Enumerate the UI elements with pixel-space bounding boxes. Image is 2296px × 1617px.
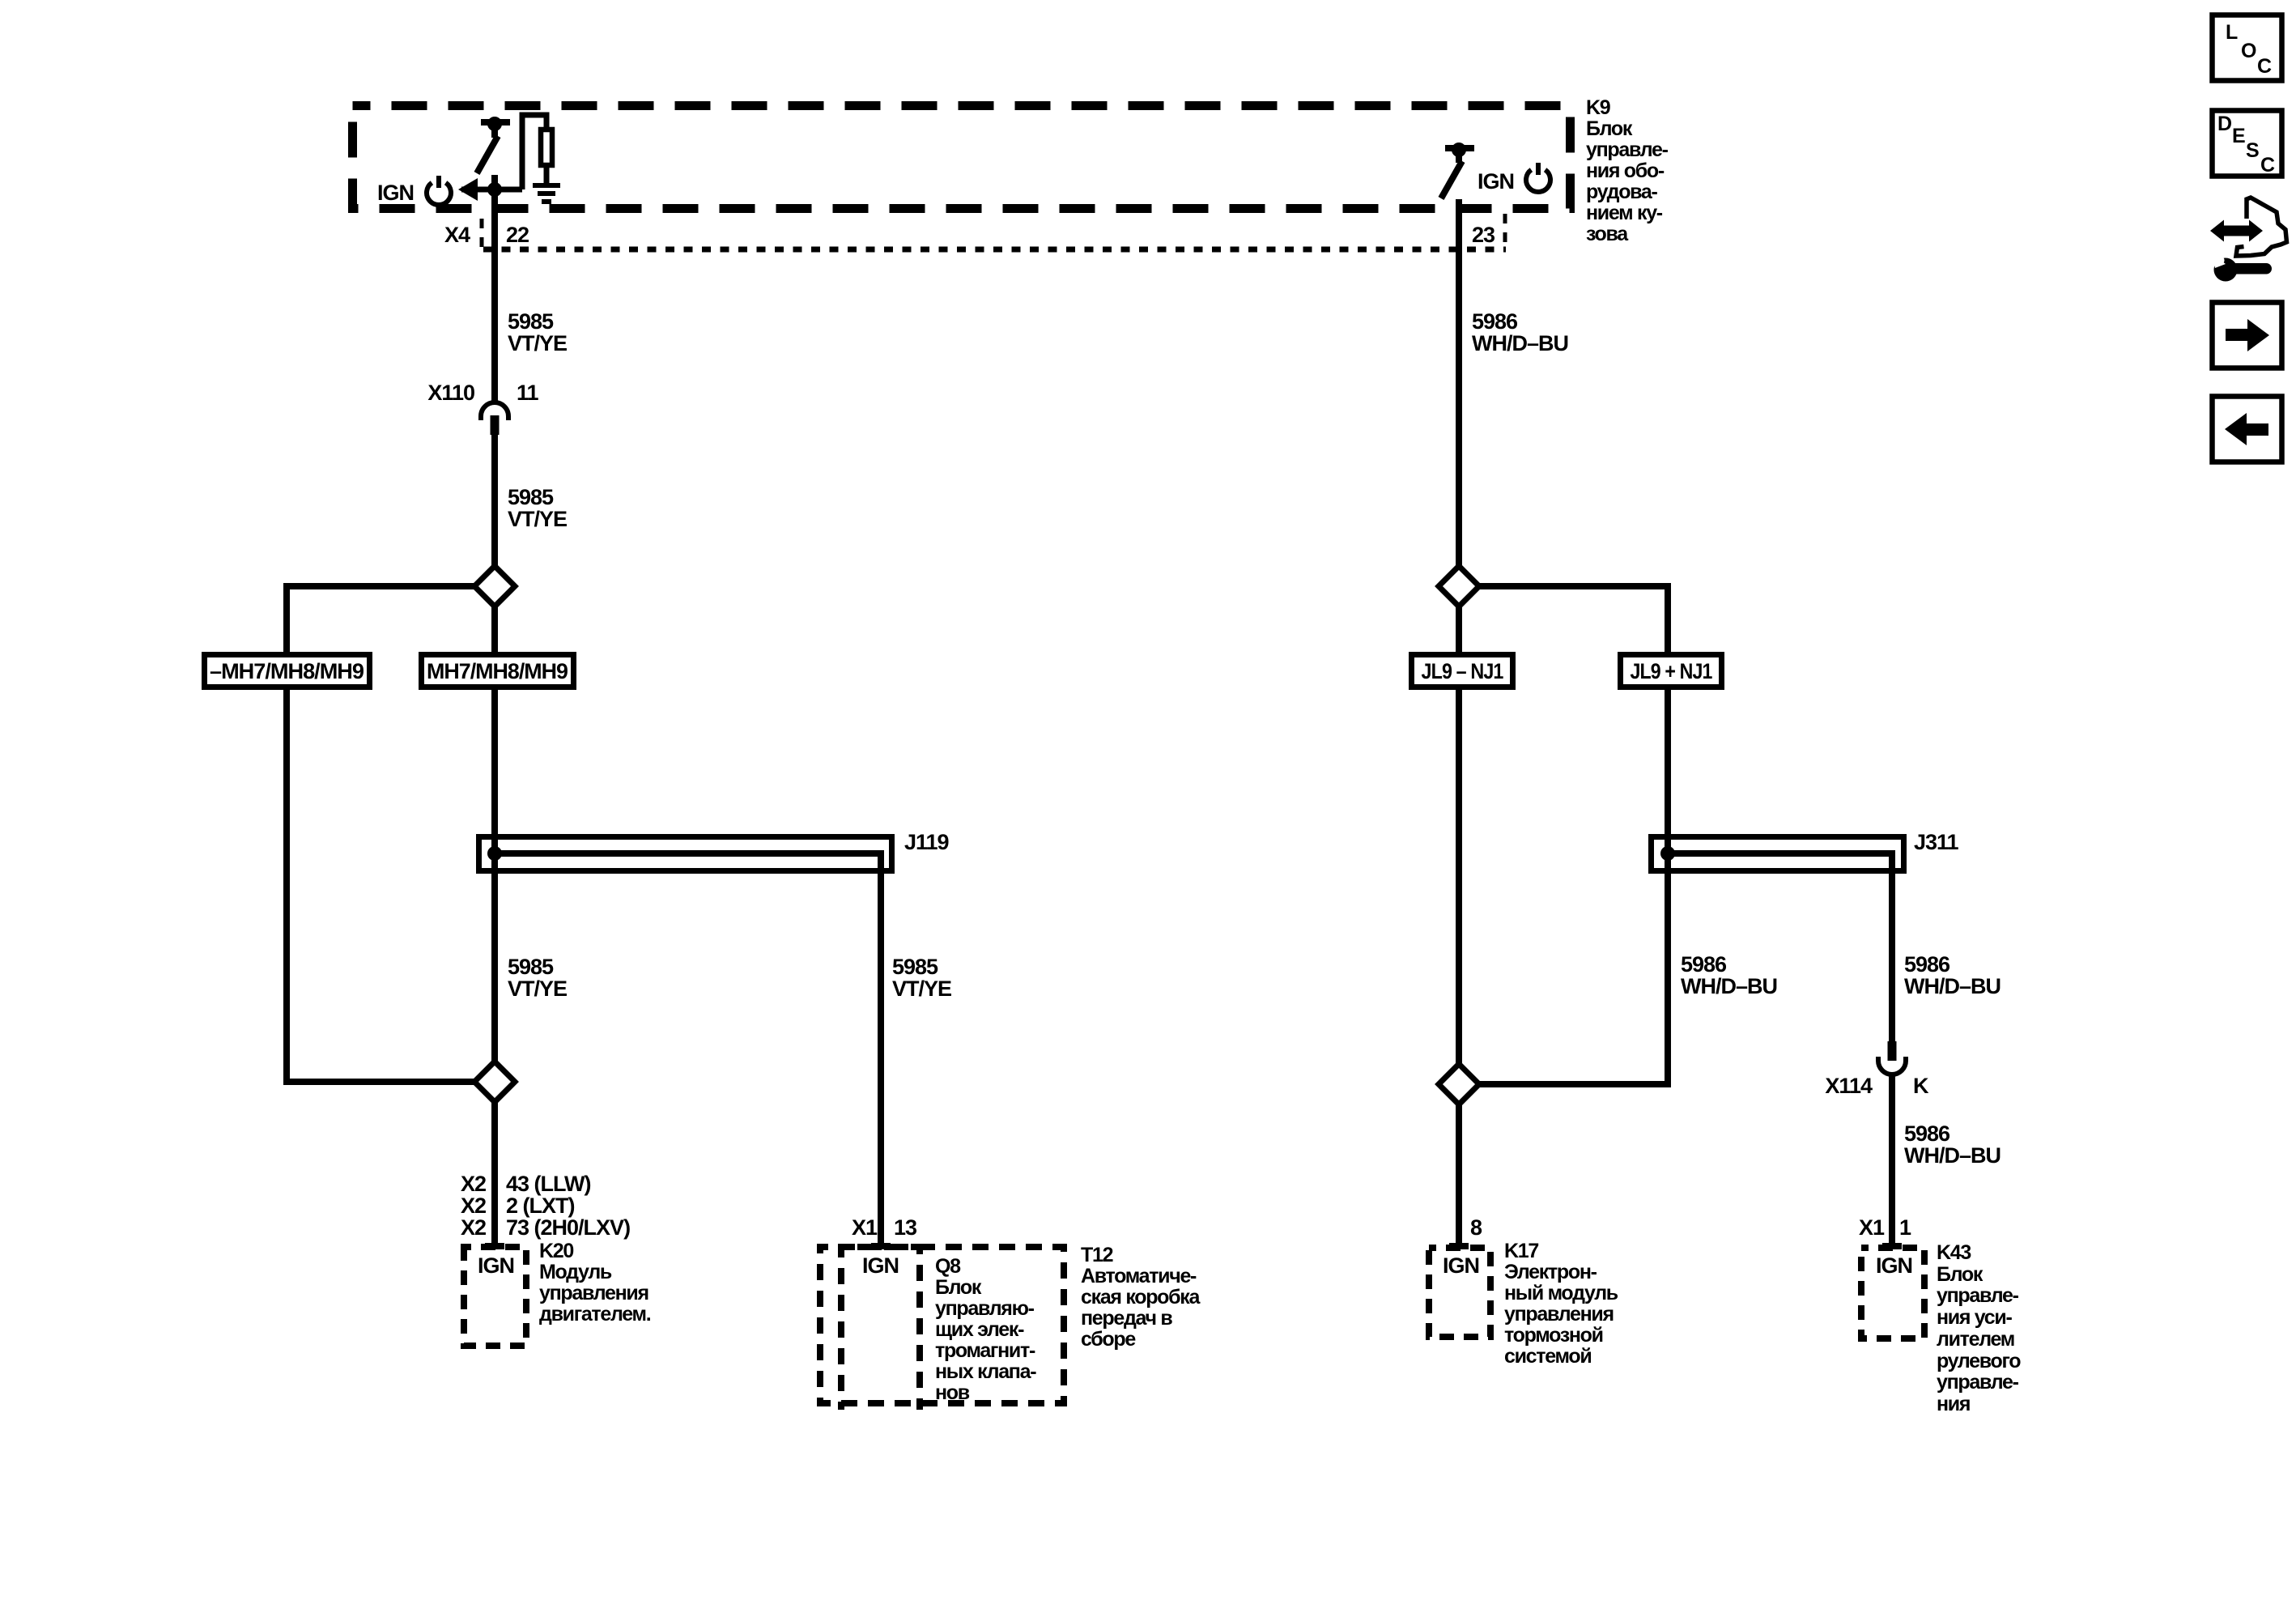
svg-text:C: C [2260, 154, 2275, 177]
sidebar left-arrow box [2213, 397, 2282, 462]
svg-text:X110: X110 [427, 381, 474, 405]
svg-text:ская коробка: ская коробка [1081, 1286, 1201, 1308]
svg-text:Автоматиче-: Автоматиче- [1081, 1265, 1197, 1287]
resistor to ground stub [544, 166, 550, 184]
svg-text:X2: X2 [461, 1172, 486, 1196]
K20 wire foot [485, 1243, 504, 1249]
wire option B down through J119 [491, 690, 498, 1062]
Q8 inner dashed box [841, 1247, 920, 1410]
wire JL9+NJ1 down through J311 to diamond4 [1480, 690, 1668, 1084]
svg-text:нов: нов [935, 1381, 970, 1404]
power symbol (left IGN) [427, 183, 451, 205]
K20 dashed box [464, 1247, 526, 1346]
svg-text:5986: 5986 [1472, 309, 1518, 334]
wire J119 tap to Q8 [878, 874, 884, 1244]
option box JL9 - NJ1 [1412, 655, 1513, 687]
svg-text:Блок: Блок [1586, 117, 1633, 140]
svg-text:5985: 5985 [508, 309, 554, 334]
splice diamond 3 [1439, 566, 1479, 606]
X110 inline connector [481, 402, 508, 420]
Q8 wire foot [871, 1243, 891, 1249]
wire diamond4 to K17 [1456, 1104, 1462, 1244]
svg-text:управляю-: управляю- [935, 1297, 1035, 1320]
svg-text:Модуль: Модуль [539, 1261, 612, 1283]
harness dotted line [483, 247, 1506, 253]
svg-text:WH/D–BU: WH/D–BU [1904, 974, 2000, 998]
svg-text:ния обо-: ния обо- [1586, 160, 1665, 182]
switch S-left blade [477, 136, 498, 173]
K17 wire foot [1449, 1243, 1469, 1249]
svg-text:VT/YE: VT/YE [508, 977, 567, 1001]
svg-text:управле-: управле- [1937, 1284, 2019, 1307]
svg-text:K17: K17 [1504, 1240, 1538, 1262]
junction dot switch/tap [487, 182, 502, 197]
svg-text:ный модуль: ный модуль [1504, 1282, 1618, 1304]
svg-text:J119: J119 [904, 830, 950, 854]
ground symbol [533, 183, 560, 188]
svg-text:IGN: IGN [478, 1253, 514, 1278]
svg-text:JL9 + NJ1: JL9 + NJ1 [1631, 659, 1713, 683]
wire branch diamond1 to -MH7 option [287, 586, 474, 652]
svg-text:Электрон-: Электрон- [1504, 1261, 1597, 1283]
sidebar icon: double arrow [2210, 220, 2263, 242]
svg-text:MH7/MH8/MH9: MH7/MH8/MH9 [427, 659, 568, 683]
svg-text:управления: управления [539, 1282, 648, 1304]
svg-text:X2: X2 [461, 1194, 486, 1218]
svg-text:ния уси-: ния уси- [1937, 1306, 2012, 1329]
svg-text:сборе: сборе [1081, 1328, 1136, 1351]
svg-text:X4: X4 [444, 223, 470, 247]
svg-text:Блок: Блок [935, 1276, 982, 1299]
svg-text:тромагнит-: тромагнит- [935, 1339, 1035, 1362]
svg-text:5986: 5986 [1904, 952, 1950, 977]
svg-text:VT/YE: VT/YE [508, 331, 567, 355]
svg-text:K: K [1913, 1074, 1929, 1098]
IGN tap wire with arrow (left) [461, 187, 522, 193]
svg-text:WH/D–BU: WH/D–BU [1472, 331, 1568, 355]
svg-text:13: 13 [894, 1215, 917, 1240]
svg-text:23: 23 [1472, 223, 1495, 247]
svg-text:рудова-: рудова- [1586, 181, 1658, 203]
svg-text:5986: 5986 [1681, 952, 1727, 977]
svg-text:X114: X114 [1825, 1074, 1873, 1098]
svg-text:X1: X1 [1859, 1215, 1885, 1240]
svg-text:IGN: IGN [377, 181, 414, 205]
sidebar LOC box [2213, 15, 2282, 81]
splice diamond 1 [474, 566, 515, 606]
svg-text:X1: X1 [852, 1215, 878, 1240]
wire diamond3 to option box C [1456, 606, 1462, 652]
svg-text:VT/YE: VT/YE [892, 977, 951, 1001]
switch S-right contact dot [1452, 143, 1466, 157]
svg-text:K43: K43 [1937, 1241, 1971, 1264]
svg-text:IGN: IGN [1876, 1253, 1912, 1278]
wire diamond1 to option box B [491, 606, 498, 652]
svg-text:5986: 5986 [1904, 1121, 1950, 1146]
switch S-right blade [1441, 161, 1462, 198]
svg-text:–MH7/MH8/MH9: –MH7/MH8/MH9 [210, 659, 364, 683]
svg-text:1: 1 [1899, 1215, 1911, 1240]
svg-text:C: C [2257, 55, 2272, 78]
svg-text:O: O [2241, 40, 2256, 62]
svg-text:D: D [2217, 113, 2232, 135]
svg-text:двигателем.: двигателем. [539, 1303, 651, 1326]
svg-text:IGN: IGN [862, 1253, 899, 1278]
sidebar icon: wrench [2211, 253, 2272, 282]
svg-text:S: S [2246, 139, 2260, 162]
switch S-left contact dot [487, 117, 502, 131]
svg-text:T12: T12 [1081, 1244, 1113, 1266]
svg-text:E: E [2232, 125, 2246, 147]
svg-text:K20: K20 [539, 1240, 573, 1262]
wire up to resistor [522, 115, 546, 189]
sidebar icon: outline shape [2236, 198, 2287, 256]
switch S-right stub [1456, 148, 1462, 163]
arrowhead to IGN [458, 178, 478, 201]
svg-text:5985: 5985 [508, 955, 554, 979]
svg-text:VT/YE: VT/YE [508, 507, 567, 531]
svg-text:L: L [2226, 21, 2238, 44]
switch S-right fixed contact bar [1445, 145, 1474, 151]
svg-text:лителем: лителем [1937, 1328, 2014, 1351]
switch S-left fixed contact bar [481, 119, 510, 126]
svg-text:WH/D–BU: WH/D–BU [1904, 1143, 2000, 1168]
J119 splice pack [479, 834, 892, 874]
svg-text:системой: системой [1504, 1345, 1591, 1368]
svg-text:43 (LLW): 43 (LLW) [506, 1172, 591, 1196]
Q8/T12 outer dashed box [820, 1247, 1064, 1403]
K43 wire foot [1882, 1243, 1902, 1249]
svg-text:5985: 5985 [508, 485, 554, 509]
K9 module dashed box [353, 106, 1571, 209]
svg-text:IGN: IGN [1443, 1253, 1479, 1278]
svg-text:5985: 5985 [892, 955, 938, 979]
wire: right IGN output vertical 5986 [1456, 199, 1462, 568]
svg-text:нием ку-: нием ку- [1586, 202, 1663, 224]
power symbol (right IGN) [1526, 170, 1550, 192]
svg-text:щих элек-: щих элек- [935, 1318, 1024, 1341]
svg-text:JL9 – NJ1: JL9 – NJ1 [1422, 659, 1504, 683]
svg-text:IGN: IGN [1478, 169, 1514, 194]
svg-text:зова: зова [1586, 223, 1629, 245]
X4 harness separator dashes [480, 219, 484, 249]
svg-text:управле-: управле- [1586, 138, 1669, 161]
wire J119 to diamond2 [491, 874, 498, 1062]
switch S-left stub [491, 122, 498, 138]
wire below X110 [491, 434, 498, 567]
svg-text:тормозной: тормозной [1504, 1324, 1603, 1347]
wire branch diamond3 to JL9+NJ1 option [1480, 586, 1668, 652]
svg-text:X2: X2 [461, 1215, 486, 1240]
svg-text:11: 11 [517, 381, 539, 405]
svg-text:8: 8 [1470, 1215, 1482, 1240]
sidebar right-arrow box [2213, 303, 2282, 368]
svg-text:управления: управления [1504, 1303, 1614, 1326]
svg-text:K9: K9 [1586, 96, 1610, 119]
splice diamond 4 [1439, 1064, 1479, 1104]
wire option A down [287, 690, 474, 1082]
svg-text:ния: ния [1937, 1393, 1970, 1415]
svg-text:73 (2H0/LXV): 73 (2H0/LXV) [506, 1215, 630, 1240]
svg-text:2 (LXT): 2 (LXT) [506, 1194, 575, 1218]
option box JL9 + NJ1 [1621, 655, 1722, 687]
K17 dashed box [1429, 1248, 1490, 1337]
svg-text:управле-: управле- [1937, 1371, 2019, 1394]
svg-text:Блок: Блок [1937, 1263, 1983, 1286]
X114 inline connector [1888, 1041, 1897, 1061]
wire JL9-NJ1 down to diamond4 [1456, 690, 1462, 1064]
J311 splice pack [1652, 834, 1904, 874]
wire: left IGN switch output vertical 5985 [491, 175, 498, 402]
svg-text:22: 22 [506, 223, 529, 247]
svg-text:J311: J311 [1914, 830, 1959, 854]
resistor R (pull-up) [541, 130, 552, 165]
svg-text:ных клапа-: ных клапа- [935, 1360, 1036, 1383]
splice diamond 2 [474, 1062, 515, 1102]
option box -MH7/MH8/MH9 [205, 655, 370, 687]
svg-text:WH/D–BU: WH/D–BU [1681, 974, 1777, 998]
wire diamond2 to K20 [491, 1102, 498, 1244]
option box MH7/MH8/MH9 [422, 655, 574, 687]
svg-text:Q8: Q8 [935, 1255, 961, 1278]
svg-text:рулевого: рулевого [1937, 1350, 2021, 1372]
K43 dashed box [1861, 1248, 1924, 1338]
sidebar DESC box [2213, 111, 2282, 177]
wire X114 down to K43 [1889, 1075, 1895, 1244]
wire J311 tap down to X114 [1889, 874, 1895, 1043]
svg-text:передач в: передач в [1081, 1307, 1172, 1330]
